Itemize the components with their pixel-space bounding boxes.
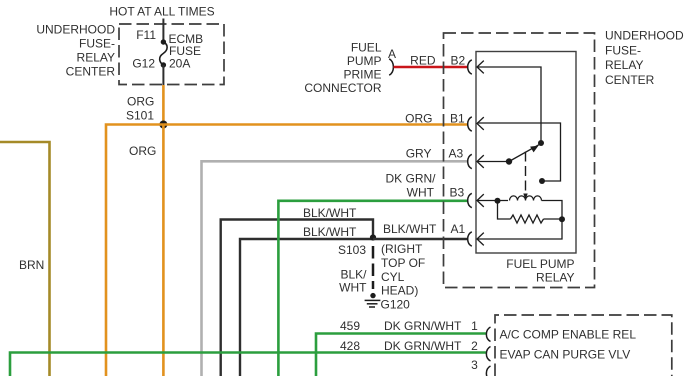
ground G120 [370,293,375,298]
svg-text:TOP OF: TOP OF [381,256,425,270]
svg-text:HOT AT ALL TIMES: HOT AT ALL TIMES [109,5,214,19]
svg-text:UNDERHOOD: UNDERHOOD [605,29,684,43]
svg-text:BRN: BRN [19,258,44,272]
svg-text:ORG: ORG [129,144,156,158]
svg-text:UNDERHOOD: UNDERHOOD [36,23,115,37]
wire DK GRN/WHT 428 [10,353,486,376]
wire B3 dot down to resistor [498,201,511,220]
fuse F11/G12 ECMB FUSE 20A [161,39,166,44]
underhood fuse-relay center box (right, dashed) [444,33,595,288]
wire BLK/WHT 2 (lower) from bottom up and right to S103 [240,239,373,376]
wire GRY from A3 left then down [202,161,468,376]
svg-text:CONNECTOR: CONNECTOR [304,81,381,95]
connector B2 [468,60,472,74]
svg-text:20A: 20A [169,57,190,71]
connector pin 1 [486,327,490,342]
svg-text:B3: B3 [450,186,465,200]
svg-text:WHT: WHT [407,186,435,200]
svg-text:CENTER: CENTER [66,65,116,79]
svg-text:A/C COMP ENABLE REL: A/C COMP ENABLE REL [500,328,637,342]
svg-text:BLK/WHT: BLK/WHT [303,206,357,220]
wire BLK/WHT dashed to ground G120 [372,246,375,289]
wire BLK/WHT 1 (upper) from bottom up and right to S103 [221,220,373,376]
svg-text:G120: G120 [381,298,411,312]
junction S101 [159,121,167,129]
wire B3 terminal to coil [477,200,508,202]
wire resistor to junction [544,218,563,220]
svg-text:RELAY: RELAY [605,58,643,72]
wire A3 terminal to switch pivot [477,161,509,163]
relay coil [510,196,542,201]
connector B3 [468,193,472,207]
wire junction down to A1 [477,219,562,239]
svg-text:2: 2 [471,339,478,353]
svg-text:FUSE-: FUSE- [605,44,641,58]
wire ORG S101 to B1 [163,123,467,126]
relay resistor [511,215,544,223]
svg-text:PRIME: PRIME [343,68,381,82]
svg-text:DK GRN/WHT: DK GRN/WHT [384,319,462,333]
wire BLK/WHT S103 to A1 [373,238,468,240]
svg-text:A1: A1 [451,222,466,236]
wire RED prime connector to B2 [394,66,468,69]
svg-text:3: 3 [471,358,478,372]
svg-text:BLK/: BLK/ [340,268,367,282]
wire ORG S101 down [162,125,165,376]
svg-text:BLK/WHT: BLK/WHT [383,222,437,236]
svg-text:GRY: GRY [406,147,432,161]
svg-text:FUSE-: FUSE- [79,37,115,51]
wire fuse output (black) to box edge [162,65,164,85]
svg-text:ORG: ORG [127,95,154,109]
connector half (fuel pump prime) [389,59,393,75]
svg-text:1: 1 [471,319,478,333]
wire BRN from left edge down [0,142,50,376]
connector A3 [468,154,472,168]
svg-text:B1: B1 [450,112,465,126]
connector B1 [468,117,472,131]
svg-text:CYL: CYL [381,270,405,284]
junction S103 [370,234,376,240]
svg-text:S101: S101 [126,109,154,123]
wire from HOT feed into fuse (black) [162,19,164,43]
wire coil to right corner [542,201,563,220]
svg-text:B2: B2 [451,54,466,68]
connector pin 2 [486,347,490,362]
underhood fuse-relay center box (left, dashed) [119,24,224,85]
svg-text:ORG: ORG [405,112,432,126]
connector A1 [468,232,472,246]
wire ORG S101 left branch [106,125,163,376]
fuel pump relay box (solid) [476,52,576,254]
svg-text:DK GRN/: DK GRN/ [385,172,436,186]
svg-text:S103: S103 [338,243,366,257]
wire DK GRN/WHT from B3 left then down [278,201,467,376]
svg-text:428: 428 [340,339,360,353]
connector pin 3 [486,366,490,376]
svg-text:PUMP: PUMP [347,54,382,68]
svg-text:BLK/WHT: BLK/WHT [303,225,357,239]
svg-text:(RIGHT: (RIGHT [381,242,423,256]
A/C-EVAP module box (dashed) [495,315,672,376]
relay switch blade [506,158,512,164]
svg-text:HEAD): HEAD) [381,284,418,298]
svg-text:DK GRN/WHT: DK GRN/WHT [384,339,462,353]
svg-text:WHT: WHT [339,281,367,295]
svg-text:459: 459 [340,319,360,333]
svg-text:RED: RED [410,54,436,68]
wire B1 terminal to lower contact [477,123,561,181]
svg-text:CENTER: CENTER [605,73,655,87]
svg-text:A3: A3 [449,147,464,161]
wire DK GRN/WHT 459 [316,334,486,376]
svg-text:RELAY: RELAY [77,51,115,65]
svg-text:FUEL PUMP: FUEL PUMP [506,257,574,271]
svg-text:F11: F11 [136,28,156,42]
svg-text:FUEL: FUEL [351,41,382,55]
svg-text:RELAY: RELAY [536,271,574,285]
relay actuator dashed link [525,152,527,193]
wire B2 terminal to switch contact [477,67,541,143]
svg-text:G12: G12 [132,57,155,71]
svg-text:EVAP CAN PURGE VLV: EVAP CAN PURGE VLV [500,348,631,362]
wire ORG fuse box to S101 [162,85,165,125]
